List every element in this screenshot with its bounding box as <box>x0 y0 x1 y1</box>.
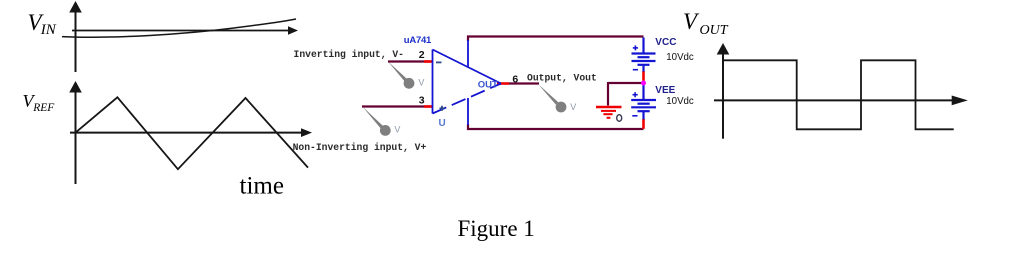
svg-text:10Vdc: 10Vdc <box>666 96 694 107</box>
svg-text:OUT: OUT <box>478 80 498 91</box>
svg-text:V: V <box>570 102 576 112</box>
svg-text:Inverting input, V-: Inverting input, V- <box>294 49 404 60</box>
svg-text:3: 3 <box>419 94 425 106</box>
svg-text:6: 6 <box>512 73 518 85</box>
svg-text:time: time <box>240 173 284 200</box>
svg-text:REF: REF <box>32 102 55 114</box>
svg-text:U: U <box>439 118 446 129</box>
svg-text:VCC: VCC <box>655 37 676 48</box>
svg-text:Figure 1: Figure 1 <box>458 216 535 241</box>
svg-text:IN: IN <box>40 22 57 38</box>
svg-text:10Vdc: 10Vdc <box>666 52 694 63</box>
svg-text:uA741: uA741 <box>404 35 432 46</box>
svg-text:V: V <box>418 78 424 88</box>
svg-text:OUT: OUT <box>700 23 729 38</box>
svg-text:Output, Vout: Output, Vout <box>527 73 597 84</box>
svg-text:2: 2 <box>419 49 425 61</box>
svg-text:V: V <box>394 124 400 134</box>
svg-text:Non-Inverting input, V+: Non-Inverting input, V+ <box>293 142 427 153</box>
svg-text:VEE: VEE <box>655 85 675 96</box>
svg-text:V: V <box>683 9 700 34</box>
